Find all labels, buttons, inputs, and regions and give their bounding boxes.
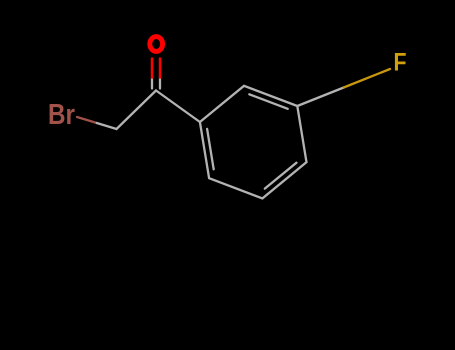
aromatic inner line F6-A xyxy=(207,129,214,169)
C=O gray part xyxy=(159,78,161,89)
atom label O drawn as thick ellipse ring xyxy=(150,37,163,52)
bond CH2Br-C(=O) xyxy=(117,91,157,130)
C=O gray part xyxy=(151,78,153,89)
aromatic inner line B-C xyxy=(249,94,287,109)
bond ring-F golden half xyxy=(344,69,390,88)
svg-text:F: F xyxy=(394,49,407,77)
bond C(=O)-ring ipso xyxy=(156,91,200,123)
svg-text:Br: Br xyxy=(48,99,75,131)
C=O red part xyxy=(151,59,154,78)
bond ring-F gray half xyxy=(297,88,343,107)
aromatic inner line D-E xyxy=(265,163,297,189)
bond Br-C maroon half xyxy=(77,117,97,123)
bond Br-C gray half xyxy=(97,123,117,129)
C=O red part xyxy=(159,59,162,78)
benzene ring outline xyxy=(200,86,307,199)
